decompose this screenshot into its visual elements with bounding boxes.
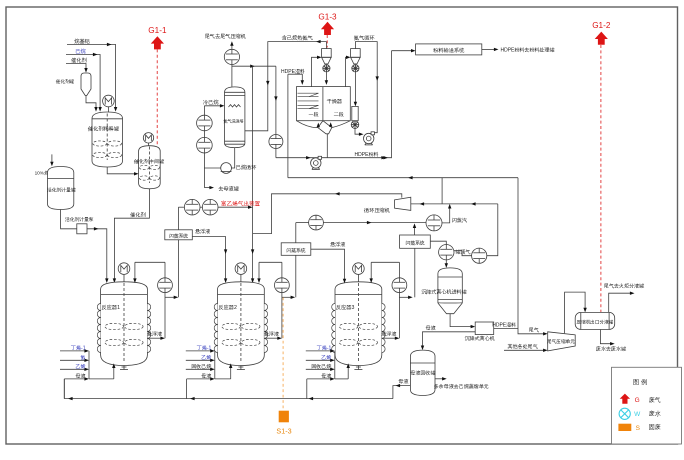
hx flash steam cooler: [426, 215, 442, 231]
wire catalyst tank outlet: [86, 96, 98, 112]
node G1-2 waste gas marker: [592, 21, 611, 45]
reactor R3 motor: [353, 263, 365, 283]
svg-text:母液: 母液: [321, 373, 332, 380]
svg-text:氮气循环: 氮气循环: [353, 35, 376, 42]
svg-text:闪蒸汽: 闪蒸汽: [452, 217, 468, 224]
svg-text:反应器3: 反应器3: [336, 304, 355, 311]
node mother liquor label: [426, 325, 437, 332]
svg-text:催化剂罐: 催化剂罐: [55, 78, 75, 85]
svg-text:闪蒸系统: 闪蒸系统: [405, 240, 424, 247]
wire cake riser B: [517, 178, 519, 329]
node mother liquor out label: [398, 378, 409, 385]
node R1 suspension label: [146, 331, 163, 338]
hx hexane cooler lower: [197, 137, 213, 153]
reactor R1 motor: [118, 263, 130, 283]
wire wet material into dryer: [288, 74, 304, 85]
svg-text:富乙烯气出装置: 富乙烯气出装置: [221, 200, 261, 207]
svg-text:图 例: 图 例: [633, 378, 647, 386]
svg-text:母液: 母液: [201, 373, 212, 380]
dryer box: [297, 87, 351, 121]
node hexane circulation label: [236, 164, 258, 171]
node excess mother liquor label: [434, 383, 489, 390]
wire catalyst to reactor1: [113, 189, 150, 283]
wire line into reactor2 top: [251, 66, 254, 283]
wire dryer funnel outlet: [326, 134, 328, 158]
svg-text:反应器2: 反应器2: [218, 304, 237, 311]
reactor R1 vessel: [97, 282, 150, 370]
blower conveyor blower: [311, 156, 322, 169]
node tank top gas label: [454, 249, 470, 256]
node S1-3 solid waste marker: [276, 411, 291, 436]
node catalyst line label: [129, 211, 146, 218]
svg-text:乙烯: 乙烯: [76, 363, 87, 370]
wire flash box1 to reactor2: [192, 237, 227, 283]
node tail gas label: [528, 327, 539, 334]
wire dryer gas line: [274, 66, 277, 158]
node cold hexane label: [203, 99, 219, 106]
hx gas cooler on dryer gas line: [269, 135, 283, 149]
hx reactor R2 condenser: [275, 278, 290, 293]
svg-text:回收己烷: 回收己烷: [311, 363, 332, 370]
wire R3 condensate to riser: [399, 296, 412, 299]
svg-text:闪蒸系统: 闪蒸系统: [169, 232, 188, 239]
wire mother liquor recycle line: [64, 379, 393, 400]
legend box: [612, 367, 682, 444]
wire G1-1 dashed vent line: [156, 49, 158, 145]
wire suction corner to tank top gas: [487, 204, 498, 256]
svg-text:废气: 废气: [649, 396, 661, 404]
wire cooler to feed tank: [445, 260, 448, 268]
svg-text:废水去废水罐: 废水去废水罐: [595, 345, 626, 352]
motor M on dilution tank: [103, 95, 115, 112]
wire flash box2 to reactor3: [311, 249, 346, 283]
svg-text:催化剂: 催化剂: [129, 211, 146, 218]
svg-text:干燥器: 干燥器: [326, 98, 343, 105]
svg-text:尾气压缩单元: 尾气压缩单元: [546, 338, 575, 345]
node G1-1 waste gas marker: [148, 26, 167, 49]
hx hexane cooler upper: [197, 115, 213, 131]
svg-text:氢: 氢: [81, 354, 86, 361]
wire to mother liquor tank: [204, 186, 214, 189]
vessel discharge chute: [352, 106, 358, 120]
node R2 suspension label: [263, 331, 280, 338]
wire tail gas to compression: [518, 329, 548, 336]
vessel catalyst tank: [55, 73, 91, 96]
reactor R2 vessel: [214, 282, 267, 370]
wire recovery tank to recycle: [393, 384, 411, 399]
wire compression discharge: [565, 292, 587, 333]
wire other tail gas: [504, 349, 548, 352]
node R3 feed labels: [311, 345, 332, 380]
svg-text:沉降式离心机: 沉降式离心机: [464, 334, 496, 342]
wire hot nitrogen to tower: [245, 40, 327, 131]
wire nitrogen circulation: [355, 42, 379, 133]
svg-text:G1-1: G1-1: [148, 26, 167, 35]
compressor recycle gas compressor: [395, 197, 411, 210]
vessel catalyst dilution tank: [87, 112, 123, 167]
flash system box 2: [281, 243, 311, 256]
wire S1-3 dashed line: [282, 298, 284, 411]
svg-text:己烷循环: 己烷循环: [236, 164, 258, 171]
node hexane feed label: [75, 48, 86, 55]
node HDPE powder label: [355, 151, 379, 158]
svg-text:HDPE粉料去粉料处理罐: HDPE粉料去粉料处理罐: [501, 47, 555, 54]
svg-text:催化剂中间罐: 催化剂中间罐: [133, 158, 164, 165]
svg-text:G1-2: G1-2: [592, 21, 611, 30]
svg-text:G: G: [635, 397, 640, 404]
svg-text:活化剂计量罐: 活化剂计量罐: [47, 187, 76, 194]
column nitrogen washing tower: [223, 87, 245, 148]
wire R3 suspension line: [382, 337, 400, 340]
wire flash box1 riser: [177, 240, 179, 297]
node 10% concentration label: [35, 169, 68, 176]
wire centrifuge cake line: [494, 328, 518, 330]
svg-text:母液: 母液: [76, 373, 87, 380]
wire R1 feed lines: [60, 349, 116, 398]
wire tower bottom to pump: [204, 148, 234, 168]
powder conveying system box: [416, 44, 482, 55]
reactor R3 vessel: [332, 282, 385, 370]
svg-text:多余母液去己烷蒸馏单元: 多余母液去己烷蒸馏单元: [434, 383, 489, 390]
hx feed tank inlet cooler: [439, 245, 454, 260]
wire powder to conveying box: [381, 49, 415, 159]
wire catalyst feed: [66, 64, 88, 73]
wire tank top gas link: [454, 251, 472, 256]
hx flash box2 condenser: [309, 215, 324, 230]
motor M on intermediate tank: [143, 133, 153, 147]
wire hexane feed: [66, 53, 102, 112]
wire compressor discharge: [253, 192, 402, 234]
vessel mother liquor recovery tank: [410, 350, 435, 395]
wire cold hexane into tower: [204, 104, 224, 107]
wire flash box3 gas up: [413, 223, 416, 235]
wire compressor suction: [411, 202, 498, 205]
node suspension label box1: [194, 228, 211, 235]
node R2 feed labels: [191, 345, 212, 380]
svg-text:HDPE粉料: HDPE粉料: [355, 151, 379, 158]
node waste water label: [595, 345, 626, 352]
wire R3 feed lines: [306, 349, 350, 398]
valve rotary valve under cyclone2: [352, 65, 359, 72]
svg-text:悬浮液: 悬浮液: [194, 228, 211, 235]
wire flash box3 riser: [414, 248, 416, 297]
svg-text:尾气: 尾气: [528, 327, 539, 334]
dryer bottom hoppers: [297, 121, 351, 134]
pump hexane circulation pump: [221, 163, 232, 174]
svg-text:烷基铝: 烷基铝: [74, 38, 90, 45]
svg-text:一段: 一段: [309, 111, 319, 118]
hx reactor R3 condenser: [392, 278, 407, 293]
vessel compressor outlet separator drum: [575, 312, 615, 329]
vessel activator metering tank: [47, 167, 76, 210]
node other tail gas label: [507, 343, 538, 350]
svg-text:回收己烷: 回收己烷: [191, 363, 212, 370]
svg-text:其他各处尾气: 其他各处尾气: [507, 343, 538, 350]
node centrifuge label: [464, 334, 496, 342]
wire dryer gas header drop: [441, 178, 443, 204]
svg-text:氮气洗涤塔: 氮气洗涤塔: [223, 118, 243, 123]
node powder to treatment label: [501, 47, 555, 54]
svg-text:废水: 废水: [649, 410, 662, 418]
svg-text:G1-3: G1-3: [318, 13, 337, 22]
hx condenser above washing tower: [224, 49, 239, 64]
svg-text:丁烯-1: 丁烯-1: [316, 345, 332, 352]
node tail gas to compressor label: [204, 33, 246, 40]
svg-text:压缩机出口分液罐: 压缩机出口分液罐: [576, 319, 614, 326]
wire riser to flash box1: [177, 207, 179, 230]
wire G1-2 dashed vent line: [600, 45, 602, 312]
wire drum to flare: [609, 292, 635, 313]
svg-text:W: W: [634, 411, 641, 418]
svg-text:冷己烷: 冷己烷: [203, 99, 219, 106]
hx tank top gas cooler: [472, 248, 487, 263]
node R1 feed labels: [70, 345, 86, 380]
hx reactor R1 condenser: [158, 278, 173, 293]
wire tower overhead: [231, 65, 233, 87]
wire tower left recycle: [203, 106, 205, 188]
svg-text:去母液罐: 去母液罐: [217, 186, 239, 193]
svg-text:反应器1: 反应器1: [102, 304, 121, 311]
node recycle compressor label: [363, 207, 391, 214]
vessel catalyst intermediate tank: [133, 146, 164, 189]
valve rotary valve under chute: [351, 121, 359, 129]
svg-text:催化剂: 催化剂: [70, 57, 87, 64]
node activator metering pump label: [65, 216, 94, 223]
svg-text:乙烯: 乙烯: [201, 354, 212, 361]
wire excess mother liquor: [435, 377, 447, 380]
cyclone 1: [322, 49, 332, 64]
wire cyclone1 to dryer: [325, 72, 328, 85]
wire R1 condenser loop: [133, 262, 165, 338]
wire flash box3 to feed tank: [430, 241, 446, 244]
svg-text:活化剂计量泵: 活化剂计量泵: [65, 216, 94, 223]
svg-text:闪蒸系统: 闪蒸系统: [286, 247, 305, 254]
svg-text:S1-3: S1-3: [276, 427, 291, 436]
node flash steam label: [452, 217, 468, 224]
wire activator to reactor1: [87, 227, 109, 283]
valve rotary valve under cyclone1: [323, 65, 330, 72]
cyclone 2: [351, 49, 361, 64]
node HDPE wet material label: [281, 68, 305, 75]
svg-text:母液回收罐: 母液回收罐: [410, 369, 435, 376]
reactor R2 motor: [235, 263, 247, 283]
pump activator metering pump: [77, 224, 87, 234]
wire powder conveyor line: [276, 156, 392, 159]
wire R2 condenser loop: [257, 262, 282, 338]
wire centrifuge mother liquor: [421, 332, 475, 350]
node hot nitrogen with hexane label: [282, 35, 314, 42]
node R3 suspension label: [380, 331, 397, 338]
svg-text:丁烯-1: 丁烯-1: [196, 345, 212, 352]
wire R3 condenser loop: [370, 262, 400, 338]
svg-text:循环压缩机: 循环压缩机: [363, 207, 391, 214]
wire tank to pump: [61, 210, 77, 229]
node to mother liquor tank label: [217, 186, 239, 193]
centrifuge box: [475, 322, 494, 335]
flash system box 3: [400, 235, 431, 248]
wire R2 feed lines: [186, 349, 233, 398]
wire flash gas line: [178, 206, 252, 209]
wire R2 condensate to riser: [282, 296, 295, 299]
node suspension label box2: [329, 241, 346, 248]
node tail gas to flare label: [603, 282, 644, 289]
wire conveying outlet: [482, 48, 499, 51]
wire dryer gas header A: [288, 176, 518, 179]
wire activator feed arrow: [50, 154, 53, 166]
wire tail gas up arrow: [230, 41, 233, 49]
wire feed tank to centrifuge: [450, 314, 475, 329]
svg-text:丁烯-1: 丁烯-1: [70, 345, 86, 352]
hx flash condenser 2: [202, 199, 218, 215]
node alkyl-aluminum feed label: [74, 38, 90, 45]
svg-text:沉降式离心机进料罐: 沉降式离心机进料罐: [421, 288, 467, 296]
svg-text:二段: 二段: [334, 111, 344, 118]
svg-text:含己烷热氮气: 含己烷热氮气: [282, 35, 314, 42]
svg-text:母液: 母液: [426, 325, 437, 332]
wire dryer stage1 to cyclone1: [312, 56, 322, 87]
svg-text:尾气去尾气压缩机: 尾气去尾气压缩机: [204, 33, 246, 40]
node nitrogen circulation label: [353, 35, 376, 42]
wire powder riser: [391, 51, 393, 158]
wire flash box2 riser: [295, 255, 297, 297]
node catalyst feed label: [70, 57, 87, 64]
wire overhead branch to reactor2 line: [232, 65, 276, 68]
wire flash steam to suction: [442, 204, 451, 223]
vessel centrifuge feed tank: [421, 268, 467, 314]
wire cyclone2 down: [354, 72, 357, 107]
wire chute to blower: [355, 129, 364, 136]
flash system box 1: [165, 230, 193, 240]
node HDPE wet cake label: [492, 322, 516, 329]
wire drum water out: [600, 330, 614, 346]
wire dilution tank to intermediate tank: [107, 167, 138, 176]
wire flash box2 gas up: [295, 223, 297, 243]
wire R1 suspension line: [147, 337, 165, 340]
wire R2 suspension line: [264, 337, 282, 340]
wire R1 condensate to riser: [165, 296, 178, 299]
svg-text:催化剂稀释罐: 催化剂稀释罐: [87, 126, 119, 133]
wire dryer stage2 to cyclone2: [346, 56, 351, 87]
svg-text:HDPE湿料: HDPE湿料: [281, 68, 305, 75]
node rich ethylene gas label: [221, 200, 261, 207]
svg-text:乙烯: 乙烯: [321, 354, 332, 361]
compressor tail gas compression unit: [546, 332, 575, 351]
svg-text:固废: 固废: [649, 423, 661, 431]
svg-text:HDPE湿料: HDPE湿料: [492, 322, 516, 329]
wire G1-3 dashed vent line: [326, 35, 328, 48]
svg-text:粉料输送系统: 粉料输送系统: [433, 47, 465, 54]
wire flash steam header: [296, 221, 426, 224]
blower nitrogen blower: [364, 132, 375, 145]
wire alkyl-aluminum feed: [67, 43, 117, 112]
node G1-3 waste gas marker: [318, 13, 337, 36]
hx flash condenser 1: [184, 199, 200, 215]
wire wet material riser: [287, 74, 289, 178]
svg-text:悬浮液: 悬浮液: [329, 241, 346, 248]
svg-text:S: S: [636, 425, 641, 432]
svg-text:尾气去火炬分液罐: 尾气去火炬分液罐: [603, 282, 644, 289]
